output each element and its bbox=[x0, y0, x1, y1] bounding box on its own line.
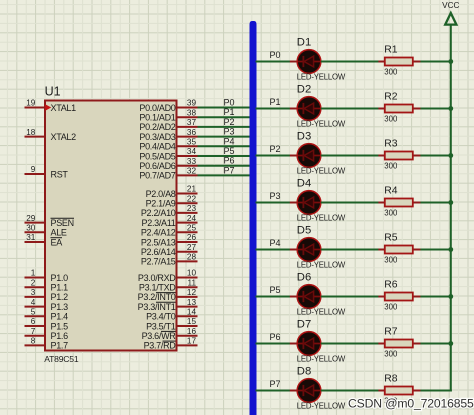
LED D8 bbox=[290, 365, 346, 410]
svg-text:22: 22 bbox=[187, 194, 197, 203]
svg-text:P2.5/A13: P2.5/A13 bbox=[141, 237, 176, 247]
wire R6 to VCC rail bbox=[420, 296, 451, 298]
wire bus to D5 (net P4) bbox=[256, 238, 291, 249]
pin 30 ALE bbox=[25, 224, 67, 238]
svg-text:19: 19 bbox=[26, 99, 36, 108]
pin 1 P1.0 bbox=[25, 269, 69, 283]
pin 21 P2.0/A8 bbox=[146, 185, 198, 199]
svg-text:R2: R2 bbox=[384, 92, 398, 103]
pin 36 P0.3/AD3 bbox=[139, 128, 197, 142]
svg-text:13: 13 bbox=[187, 298, 197, 307]
svg-text:15: 15 bbox=[187, 317, 197, 326]
svg-text:P5: P5 bbox=[223, 146, 234, 156]
svg-text:17: 17 bbox=[187, 337, 197, 346]
svg-text:CSDN @m0_72016855: CSDN @m0_72016855 bbox=[348, 396, 474, 410]
pin 26 P2.5/A13 bbox=[141, 233, 198, 247]
svg-text:R5: R5 bbox=[384, 233, 398, 244]
junction node row 7 bbox=[448, 341, 453, 346]
svg-text:P2: P2 bbox=[223, 117, 234, 127]
svg-text:26: 26 bbox=[187, 233, 197, 242]
svg-text:LED-YELLOW: LED-YELLOW bbox=[297, 120, 346, 129]
svg-text:LED-YELLOW: LED-YELLOW bbox=[297, 308, 346, 317]
wire bus to D1 (net P0) bbox=[256, 50, 291, 61]
svg-text:R8: R8 bbox=[384, 374, 398, 385]
svg-text:P4: P4 bbox=[223, 136, 234, 146]
resistor R8 300 bbox=[378, 374, 420, 406]
svg-text:D6: D6 bbox=[297, 271, 311, 283]
svg-text:300: 300 bbox=[384, 114, 398, 123]
chip U1 AT89C51 body bbox=[45, 101, 177, 351]
junction node row 3 bbox=[448, 153, 453, 158]
svg-text:30: 30 bbox=[26, 224, 36, 233]
svg-text:24: 24 bbox=[187, 214, 197, 223]
wire P0.5 to bus, net P5 bbox=[198, 146, 251, 156]
pin 4 P1.3 bbox=[25, 298, 69, 312]
wire P0.7 to bus, net P7 bbox=[198, 165, 251, 175]
svg-text:LED-YELLOW: LED-YELLOW bbox=[297, 402, 346, 411]
svg-text:P3.0/RXD: P3.0/RXD bbox=[138, 273, 176, 283]
pin 5 P1.4 bbox=[25, 308, 69, 322]
svg-text:P2.4/A12: P2.4/A12 bbox=[141, 228, 176, 238]
wire bus to D4 (net P3) bbox=[256, 191, 291, 202]
svg-text:300: 300 bbox=[384, 161, 398, 170]
svg-text:34: 34 bbox=[187, 147, 197, 156]
resistor R4 300 bbox=[378, 186, 420, 218]
svg-text:R4: R4 bbox=[384, 186, 398, 197]
wire D3 to R3 bbox=[321, 155, 379, 157]
junction node row 6 bbox=[448, 294, 453, 299]
LED D7 bbox=[290, 318, 346, 363]
svg-text:P7: P7 bbox=[223, 165, 234, 175]
svg-text:P0.6/AD6: P0.6/AD6 bbox=[139, 161, 175, 171]
svg-text:9: 9 bbox=[31, 165, 36, 174]
wire bus to D7 (net P6) bbox=[256, 332, 291, 343]
pin 23 P2.2/A10 bbox=[141, 204, 198, 218]
svg-text:R1: R1 bbox=[384, 45, 398, 56]
svg-text:7: 7 bbox=[31, 327, 36, 336]
pin 13 P3.3/INT1 bbox=[138, 298, 198, 312]
LED D4 bbox=[290, 177, 346, 222]
svg-text:D5: D5 bbox=[297, 224, 311, 236]
svg-text:P1.7: P1.7 bbox=[51, 341, 69, 351]
wire P0.1 to bus, net P1 bbox=[198, 107, 251, 117]
svg-text:ALE: ALE bbox=[51, 228, 67, 238]
svg-text:D1: D1 bbox=[297, 36, 311, 48]
svg-text:300: 300 bbox=[384, 255, 398, 264]
wire P0.2 to bus, net P2 bbox=[198, 117, 251, 127]
svg-text:P0.2/AD2: P0.2/AD2 bbox=[139, 122, 175, 132]
svg-text:31: 31 bbox=[26, 233, 36, 242]
resistor R2 300 bbox=[378, 92, 420, 124]
pin 37 P0.2/AD2 bbox=[139, 118, 197, 132]
svg-text:LED-YELLOW: LED-YELLOW bbox=[297, 214, 346, 223]
svg-text:3: 3 bbox=[31, 288, 36, 297]
svg-text:25: 25 bbox=[187, 224, 197, 233]
svg-text:P3.7/RD: P3.7/RD bbox=[144, 341, 177, 351]
LED D5 bbox=[290, 224, 346, 269]
pin 39 P0.0/AD0 bbox=[139, 99, 197, 113]
svg-text:P1: P1 bbox=[223, 107, 234, 117]
LED D6 bbox=[290, 271, 346, 316]
pin 32 P0.7/AD7 bbox=[139, 167, 197, 181]
pin 15 P3.5/T1 bbox=[146, 317, 197, 331]
svg-text:6: 6 bbox=[31, 317, 36, 326]
wire R4 to VCC rail bbox=[420, 202, 451, 204]
pin 29 PSEN bbox=[25, 214, 75, 228]
pin 31 EA bbox=[25, 233, 63, 247]
svg-text:R7: R7 bbox=[384, 327, 398, 338]
svg-text:AT89C51: AT89C51 bbox=[44, 354, 79, 364]
junction node row 5 bbox=[448, 247, 453, 252]
pin 12 P3.2/INT0 bbox=[138, 288, 198, 302]
svg-text:VCC: VCC bbox=[442, 1, 459, 10]
wire P0.4 to bus, net P4 bbox=[198, 136, 251, 146]
pin 8 P1.7 bbox=[25, 337, 69, 351]
power VCC symbol bbox=[442, 1, 459, 25]
wire bus to D2 (net P1) bbox=[256, 97, 291, 108]
svg-text:300: 300 bbox=[384, 67, 398, 76]
pin 3 P1.2 bbox=[25, 288, 69, 302]
pin 9 RST bbox=[25, 165, 69, 179]
wire R2 to VCC rail bbox=[420, 108, 451, 110]
svg-text:4: 4 bbox=[31, 298, 36, 307]
wire bus to D3 (net P2) bbox=[256, 144, 291, 155]
pin 24 P2.3/A11 bbox=[142, 214, 198, 228]
svg-text:P2.3/A11: P2.3/A11 bbox=[142, 218, 176, 228]
svg-text:300: 300 bbox=[384, 208, 398, 217]
wire R7 to VCC rail bbox=[420, 343, 451, 345]
svg-text:300: 300 bbox=[384, 302, 398, 311]
pin 18 XTAL2 bbox=[25, 128, 77, 142]
svg-text:32: 32 bbox=[187, 167, 197, 176]
svg-text:P1: P1 bbox=[269, 97, 280, 107]
wire D7 to R7 bbox=[321, 343, 379, 345]
label AT89C51 bbox=[44, 354, 79, 364]
wire D4 to R4 bbox=[321, 202, 379, 204]
LED D2 bbox=[290, 83, 346, 128]
svg-text:P0.1/AD1: P0.1/AD1 bbox=[139, 113, 175, 123]
svg-text:8: 8 bbox=[31, 337, 36, 346]
svg-text:5: 5 bbox=[31, 308, 36, 317]
svg-text:P3.3/INT1: P3.3/INT1 bbox=[138, 302, 176, 312]
junction node row 4 bbox=[448, 200, 453, 205]
svg-text:P5: P5 bbox=[269, 285, 280, 295]
LED D1 bbox=[290, 36, 346, 81]
svg-text:16: 16 bbox=[187, 327, 197, 336]
svg-text:P0.0/AD0: P0.0/AD0 bbox=[139, 103, 175, 113]
svg-text:14: 14 bbox=[187, 308, 197, 317]
wire R1 to VCC rail bbox=[420, 61, 451, 63]
pin 38 P0.1/AD1 bbox=[139, 108, 197, 122]
svg-text:P3.5/T1: P3.5/T1 bbox=[146, 321, 176, 331]
svg-text:P6: P6 bbox=[269, 332, 280, 342]
pin 22 P2.1/A9 bbox=[146, 194, 198, 208]
svg-text:LED-YELLOW: LED-YELLOW bbox=[297, 355, 346, 364]
resistor R3 300 bbox=[378, 139, 420, 171]
wire R3 to VCC rail bbox=[420, 155, 451, 157]
svg-text:P4: P4 bbox=[269, 238, 280, 248]
pin 11 P3.1/TXD bbox=[139, 278, 198, 292]
svg-text:P0.4/AD4: P0.4/AD4 bbox=[139, 142, 175, 152]
svg-text:P2.7/A15: P2.7/A15 bbox=[141, 257, 176, 267]
svg-text:P1.3: P1.3 bbox=[51, 302, 69, 312]
svg-text:D7: D7 bbox=[297, 318, 311, 330]
svg-text:EA: EA bbox=[51, 237, 63, 247]
pin 7 P1.6 bbox=[25, 327, 69, 341]
svg-text:P1.5: P1.5 bbox=[51, 321, 69, 331]
pin 2 P1.1 bbox=[25, 278, 69, 292]
svg-text:R6: R6 bbox=[384, 280, 398, 291]
svg-text:37: 37 bbox=[187, 118, 197, 127]
watermark bbox=[348, 396, 474, 410]
resistor R7 300 bbox=[378, 327, 420, 359]
wire VCC vertical rail bbox=[450, 25, 452, 392]
svg-text:P2.2/A10: P2.2/A10 bbox=[141, 208, 176, 218]
pin 28 P2.7/A15 bbox=[141, 253, 198, 267]
bus (blue vertical) bbox=[250, 21, 257, 415]
wire D5 to R5 bbox=[321, 249, 379, 251]
wire bus to D8 (net P7) bbox=[256, 379, 291, 390]
svg-text:18: 18 bbox=[26, 128, 36, 137]
svg-text:XTAL2: XTAL2 bbox=[51, 132, 77, 142]
svg-text:P3.2/INT0: P3.2/INT0 bbox=[138, 292, 176, 302]
pin 25 P2.4/A12 bbox=[141, 224, 198, 238]
svg-text:LED-YELLOW: LED-YELLOW bbox=[297, 261, 346, 270]
svg-text:P1.0: P1.0 bbox=[51, 273, 69, 283]
svg-text:21: 21 bbox=[187, 185, 197, 194]
pin 35 P0.4/AD4 bbox=[139, 138, 197, 152]
svg-text:300: 300 bbox=[384, 349, 398, 358]
svg-text:P3: P3 bbox=[223, 127, 234, 137]
svg-text:D3: D3 bbox=[297, 130, 311, 142]
svg-text:P1.1: P1.1 bbox=[51, 283, 69, 293]
svg-text:P3.4/T0: P3.4/T0 bbox=[146, 312, 176, 322]
wire D2 to R2 bbox=[321, 108, 379, 110]
resistor R1 300 bbox=[378, 45, 420, 77]
svg-text:P2.1/A9: P2.1/A9 bbox=[146, 199, 176, 209]
svg-text:D8: D8 bbox=[297, 365, 311, 377]
pin 19 XTAL1 bbox=[25, 99, 77, 113]
svg-text:12: 12 bbox=[187, 288, 197, 297]
LED D3 bbox=[290, 130, 346, 175]
svg-text:P3.6/WR: P3.6/WR bbox=[142, 331, 177, 341]
wire P0.0 to bus, net P0 bbox=[198, 98, 251, 108]
svg-text:P0.7/AD7: P0.7/AD7 bbox=[139, 171, 175, 181]
pin 17 P3.7/RD bbox=[144, 337, 198, 351]
svg-text:P0: P0 bbox=[223, 98, 234, 108]
pin 14 P3.4/T0 bbox=[146, 308, 197, 322]
svg-text:RST: RST bbox=[51, 169, 69, 179]
pin 10 P3.0/RXD bbox=[138, 269, 198, 283]
svg-text:28: 28 bbox=[187, 253, 197, 262]
wire D8 to R8 bbox=[321, 390, 379, 392]
svg-text:R3: R3 bbox=[384, 139, 398, 150]
wire P0.3 to bus, net P3 bbox=[198, 127, 251, 137]
junction node row 1 bbox=[448, 59, 453, 64]
pin 33 P0.6/AD6 bbox=[139, 157, 197, 171]
svg-text:23: 23 bbox=[187, 204, 197, 213]
pin 6 P1.5 bbox=[25, 317, 69, 331]
svg-text:P1.4: P1.4 bbox=[51, 312, 69, 322]
junction node row 2 bbox=[448, 106, 453, 111]
svg-text:1: 1 bbox=[31, 269, 36, 278]
svg-text:27: 27 bbox=[187, 243, 197, 252]
wire R8 to VCC rail bbox=[420, 390, 451, 392]
svg-text:P7: P7 bbox=[269, 379, 280, 389]
svg-text:LED-YELLOW: LED-YELLOW bbox=[297, 73, 346, 82]
svg-text:P3.1/TXD: P3.1/TXD bbox=[139, 283, 176, 293]
svg-text:P0: P0 bbox=[269, 50, 280, 60]
svg-text:PSEN: PSEN bbox=[51, 218, 74, 228]
pin 27 P2.6/A14 bbox=[141, 243, 198, 257]
svg-text:D2: D2 bbox=[297, 83, 311, 95]
svg-text:29: 29 bbox=[26, 214, 36, 223]
svg-text:P0.5/AD5: P0.5/AD5 bbox=[139, 151, 175, 161]
svg-text:P1.2: P1.2 bbox=[51, 292, 69, 302]
svg-text:11: 11 bbox=[188, 278, 197, 287]
svg-text:LED-YELLOW: LED-YELLOW bbox=[297, 167, 346, 176]
svg-text:D4: D4 bbox=[297, 177, 311, 189]
wire P0.6 to bus, net P6 bbox=[198, 156, 251, 166]
svg-text:P3: P3 bbox=[269, 191, 280, 201]
wire D6 to R6 bbox=[321, 296, 379, 298]
resistor R5 300 bbox=[378, 233, 420, 265]
svg-text:U1: U1 bbox=[45, 85, 61, 99]
svg-text:P2: P2 bbox=[269, 144, 280, 154]
svg-text:P6: P6 bbox=[223, 156, 234, 166]
svg-text:2: 2 bbox=[31, 278, 36, 287]
wire R5 to VCC rail bbox=[420, 249, 451, 251]
svg-text:10: 10 bbox=[187, 269, 197, 278]
svg-text:39: 39 bbox=[187, 99, 197, 108]
label U1 bbox=[45, 85, 61, 99]
svg-text:33: 33 bbox=[187, 157, 197, 166]
svg-text:P2.6/A14: P2.6/A14 bbox=[141, 247, 176, 257]
wire bus to D6 (net P5) bbox=[256, 285, 291, 296]
pin 16 P3.6/WR bbox=[142, 327, 198, 341]
svg-text:P0.3/AD3: P0.3/AD3 bbox=[139, 132, 175, 142]
svg-text:36: 36 bbox=[187, 128, 197, 137]
svg-text:XTAL1: XTAL1 bbox=[51, 103, 77, 113]
svg-text:P1.6: P1.6 bbox=[51, 331, 69, 341]
wire D1 to R1 bbox=[321, 61, 379, 63]
svg-text:38: 38 bbox=[187, 108, 197, 117]
resistor R6 300 bbox=[378, 280, 420, 312]
svg-text:P2.0/A8: P2.0/A8 bbox=[146, 189, 176, 199]
pin 34 P0.5/AD5 bbox=[139, 147, 197, 161]
svg-text:35: 35 bbox=[187, 138, 197, 147]
